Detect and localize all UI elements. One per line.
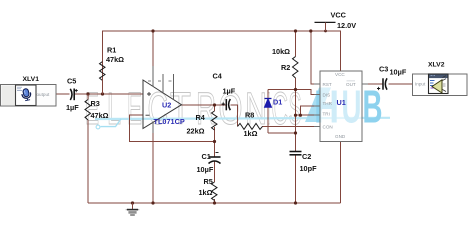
junction VCC stem / rail (324, 30, 327, 33)
svg-text:10µF: 10µF (390, 68, 407, 77)
wire node A (74, 93, 143, 95)
svg-text:U2: U2 (162, 100, 171, 109)
resistor R3 (85, 94, 91, 120)
svg-text:THR: THR (323, 101, 333, 106)
wire top rail (103, 31, 341, 94)
junction R2 / D1 / DIS node (294, 88, 297, 91)
wire bottom rail (88, 202, 341, 204)
svg-text:C4: C4 (213, 72, 223, 81)
wire C4 to R8 (230, 105, 237, 126)
wire node X (R2/D1/DIS) (268, 90, 320, 95)
svg-text:VCC: VCC (331, 10, 347, 19)
junction R1 / node A (101, 92, 104, 95)
wire C3 to XLV2 (389, 83, 414, 85)
svg-text:C3: C3 (379, 65, 388, 74)
svg-text:XLV1: XLV1 (23, 76, 40, 83)
svg-text:R4: R4 (196, 113, 206, 122)
svg-text:10kΩ: 10kΩ (272, 47, 290, 56)
junction opamp V+ pin / VCC rail (151, 29, 154, 32)
capacitor C4 (222, 99, 231, 110)
wire C1 leads (214, 142, 216, 158)
resistor R1 (100, 31, 106, 94)
wire opamp V+ to rail (152, 31, 154, 66)
resistor R5 (212, 182, 218, 201)
speaker connector XLV2 (413, 74, 468, 96)
svg-text:R5: R5 (204, 177, 213, 186)
wire THR pin (300, 106, 320, 115)
junction opamp V- / ground rail (151, 201, 154, 204)
junction ground symbol / rail (131, 201, 134, 204)
junction R3 / node A (86, 92, 89, 95)
svg-text:C5: C5 (67, 77, 76, 86)
wire C2 to ground rail (295, 155, 297, 204)
svg-text:C1: C1 (202, 152, 211, 161)
svg-text:R8: R8 (245, 111, 254, 120)
wire R2 bottom (295, 78, 297, 90)
capacitor C1 (209, 153, 221, 164)
wire THR TRI C2 vertical (295, 90, 297, 152)
resistor R8 (238, 123, 263, 129)
junction D1 anode / C2 (294, 131, 297, 134)
svg-text:10pF: 10pF (300, 164, 318, 173)
svg-text:U1: U1 (337, 98, 346, 107)
wire U1 GND to rail (340, 142, 342, 204)
watermark band (85, 81, 390, 135)
diode D1 (265, 99, 272, 108)
svg-text:TL071CP: TL071CP (154, 117, 185, 126)
wire R5 bottom (214, 199, 216, 203)
junction R5 / ground rail (213, 201, 216, 204)
capacitor C2 (290, 152, 302, 155)
svg-text:12.0V: 12.0V (337, 21, 356, 30)
svg-text:22kΩ: 22kΩ (187, 127, 205, 136)
svg-text:C2: C2 (302, 152, 311, 161)
svg-text:1kΩ: 1kΩ (244, 129, 258, 138)
wire TRI pin (296, 114, 321, 116)
svg-text:RST: RST (323, 82, 332, 87)
wire D1 top lead (267, 90, 269, 99)
wire opamp V- to ground (152, 133, 154, 203)
svg-text:10µF: 10µF (197, 165, 214, 174)
capacitor C5 (70, 89, 77, 101)
svg-text:D1: D1 (273, 98, 282, 107)
wire RST to rail (311, 31, 320, 84)
svg-text:output: output (37, 92, 50, 97)
junction THR wire (299, 114, 302, 117)
svg-text:Input: Input (415, 82, 426, 87)
junction RST wire / VCC rail (309, 29, 312, 32)
wire R8 to CON pin (262, 125, 320, 127)
VCC symbol (315, 22, 336, 31)
mic connector XLV1 (1, 85, 57, 107)
wire OUT to C3 (362, 83, 383, 85)
svg-text:CON: CON (323, 125, 333, 130)
svg-text:1kΩ: 1kΩ (199, 188, 213, 197)
svg-text:TRI: TRI (323, 112, 330, 117)
svg-text:R3: R3 (91, 99, 100, 108)
junction R4 / C1 / feedback (213, 140, 216, 143)
svg-text:47kΩ: 47kΩ (91, 111, 109, 120)
wire R4 branch (214, 105, 216, 111)
wire XLV1 to C5 (56, 93, 70, 95)
svg-text:1µF: 1µF (223, 87, 236, 96)
resistor R2 (293, 57, 299, 79)
wire R2 top (295, 31, 297, 57)
resistor R4 (212, 111, 218, 130)
svg-text:XLV2: XLV2 (428, 62, 445, 69)
junction R4 / opamp output (213, 103, 216, 106)
wire feedback loop (130, 115, 215, 141)
svg-text:DIS: DIS (323, 93, 331, 98)
svg-text:GND: GND (335, 134, 346, 139)
wire R3 to ground rail (87, 120, 89, 203)
wire opamp output (181, 104, 226, 106)
svg-text:OUT: OUT (346, 82, 356, 87)
svg-text:VCC: VCC (335, 72, 345, 77)
ground (126, 203, 140, 215)
junction C2 / ground rail (294, 201, 297, 204)
svg-text:47kΩ: 47kΩ (106, 55, 124, 64)
wire D1 to C2 branch (268, 132, 296, 134)
junction R2 / VCC rail (294, 29, 297, 32)
wire D1 bottom lead (267, 107, 269, 133)
svg-text:R2: R2 (281, 63, 290, 72)
op-amp U2 (143, 66, 182, 133)
IC U1 555 timer (314, 71, 368, 142)
junction TRI wire (294, 114, 297, 117)
capacitor C3 (377, 78, 387, 90)
svg-text:R1: R1 (107, 46, 116, 55)
svg-text:1µF: 1µF (66, 103, 79, 112)
